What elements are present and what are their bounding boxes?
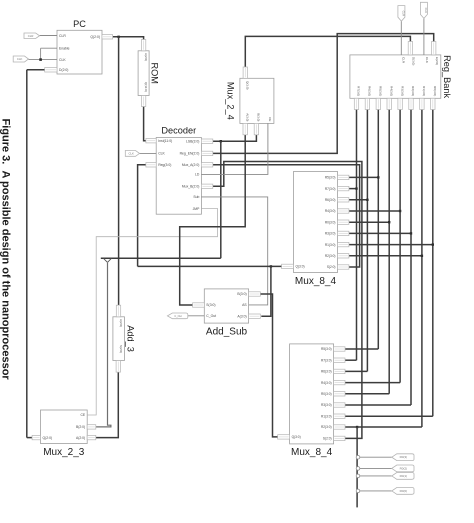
svg-text:Enable: Enable bbox=[59, 47, 70, 51]
svg-text:R3(3:0): R3(3:0) bbox=[400, 86, 404, 96]
svg-text:Mux_8_4: Mux_8_4 bbox=[295, 276, 337, 287]
svg-text:CLK: CLK bbox=[425, 57, 429, 63]
svg-text:CLK: CLK bbox=[128, 151, 134, 155]
svg-text:R2(3:0): R2(3:0) bbox=[321, 425, 332, 429]
svg-text:R6(3:0): R6(3:0) bbox=[321, 370, 332, 374]
svg-text:R4(3:0): R4(3:0) bbox=[325, 209, 336, 213]
svg-text:Mux_B(2:0): Mux_B(2:0) bbox=[182, 185, 200, 189]
svg-text:Q(3:0): Q(3:0) bbox=[296, 265, 305, 269]
svg-text:R7(3:0): R7(3:0) bbox=[357, 86, 361, 96]
svg-text:R2(3:0): R2(3:0) bbox=[325, 254, 336, 258]
svg-text:R1(3:0): R1(3:0) bbox=[325, 243, 336, 247]
svg-text:R5(3:0): R5(3:0) bbox=[321, 347, 332, 351]
svg-text:LSB(3:0): LSB(3:0) bbox=[186, 140, 199, 144]
svg-text:A(3:0): A(3:0) bbox=[237, 314, 246, 318]
svg-text:CLR: CLR bbox=[28, 34, 34, 38]
svg-text:Mux_2_3: Mux_2_3 bbox=[43, 447, 85, 458]
svg-text:B(3:0): B(3:0) bbox=[257, 113, 261, 121]
svg-text:Q(2:0): Q(2:0) bbox=[90, 35, 100, 39]
svg-text:A(2:0): A(2:0) bbox=[144, 53, 148, 61]
svg-text:C_Out: C_Out bbox=[174, 314, 182, 318]
svg-text:R7(3:0): R7(3:0) bbox=[325, 187, 336, 191]
svg-text:A(3:0): A(3:0) bbox=[245, 113, 249, 121]
svg-text:CLK: CLK bbox=[17, 57, 23, 61]
svg-text:ROM: ROM bbox=[150, 62, 160, 83]
svg-text:R0(2): R0(2) bbox=[400, 466, 408, 470]
svg-text:S(2:0): S(2:0) bbox=[327, 265, 336, 269]
svg-text:Figure 3. A possible design o: Figure 3. A possible design of the nanop… bbox=[0, 119, 12, 381]
svg-text:R0(1): R0(1) bbox=[400, 474, 408, 478]
svg-text:Mux_2_4: Mux_2_4 bbox=[226, 82, 236, 120]
svg-text:CE: CE bbox=[80, 413, 85, 417]
svg-text:A(2:0): A(2:0) bbox=[119, 319, 123, 327]
svg-text:CLR: CLR bbox=[401, 11, 405, 17]
svg-text:R0(3:0): R0(3:0) bbox=[325, 220, 336, 224]
svg-text:A(2:0): A(2:0) bbox=[76, 436, 85, 440]
svg-text:D(3:0): D(3:0) bbox=[412, 57, 416, 65]
svg-text:R5(3:0): R5(3:0) bbox=[325, 176, 336, 180]
svg-text:Reg_Bank: Reg_Bank bbox=[442, 55, 452, 98]
svg-text:Add_3: Add_3 bbox=[126, 325, 136, 352]
svg-text:R0(3:0): R0(3:0) bbox=[321, 392, 332, 396]
svg-text:R3(3:0): R3(3:0) bbox=[325, 232, 336, 236]
svg-text:Decoder: Decoder bbox=[161, 126, 196, 136]
svg-text:CE: CE bbox=[268, 117, 272, 121]
svg-text:C_Out: C_Out bbox=[206, 314, 216, 318]
svg-text:R1(3:0): R1(3:0) bbox=[321, 414, 332, 418]
svg-text:R0(0): R0(0) bbox=[400, 489, 408, 493]
svg-text:R5(3:0): R5(3:0) bbox=[379, 86, 383, 96]
svg-text:Mux_A(2:0): Mux_A(2:0) bbox=[182, 163, 200, 167]
svg-text:R7(3:0): R7(3:0) bbox=[321, 358, 332, 362]
svg-text:JMP: JMP bbox=[193, 207, 201, 211]
svg-text:R1(3:0): R1(3:0) bbox=[422, 86, 426, 96]
svg-text:S(2:0): S(2:0) bbox=[119, 345, 123, 353]
svg-text:R6(3:0): R6(3:0) bbox=[368, 86, 372, 96]
svg-text:AS: AS bbox=[242, 303, 247, 307]
svg-text:Reg_EN(2:0): Reg_EN(2:0) bbox=[180, 152, 200, 156]
svg-text:R4(3:0): R4(3:0) bbox=[389, 86, 393, 96]
svg-text:PC: PC bbox=[73, 19, 86, 29]
svg-text:CLK: CLK bbox=[59, 58, 66, 62]
svg-text:R0(3:0): R0(3:0) bbox=[433, 86, 437, 96]
svg-text:S(2:0): S(2:0) bbox=[323, 437, 332, 441]
svg-text:Reg(3:0): Reg(3:0) bbox=[158, 163, 171, 167]
svg-text:CLK: CLK bbox=[158, 152, 165, 156]
svg-text:Inst(11:0): Inst(11:0) bbox=[158, 139, 172, 143]
svg-text:Q(2:0): Q(2:0) bbox=[43, 436, 53, 440]
svg-text:Q(3:0): Q(3:0) bbox=[246, 81, 250, 90]
svg-text:CLR: CLR bbox=[402, 57, 406, 64]
svg-text:R6(3:0): R6(3:0) bbox=[325, 198, 336, 202]
svg-text:R0(3): R0(3) bbox=[400, 455, 408, 459]
svg-text:LD: LD bbox=[195, 173, 200, 177]
svg-text:CLR: CLR bbox=[59, 34, 66, 38]
svg-text:D(2:0): D(2:0) bbox=[59, 68, 68, 72]
svg-text:R3(3:0): R3(3:0) bbox=[321, 403, 332, 407]
svg-text:Mux_8_4: Mux_8_4 bbox=[291, 447, 333, 458]
svg-text:Q(3:0): Q(3:0) bbox=[292, 435, 301, 439]
svg-text:B(2:0): B(2:0) bbox=[76, 425, 85, 429]
svg-text:R2(3:0): R2(3:0) bbox=[411, 86, 415, 96]
svg-text:E(2:0): E(2:0) bbox=[435, 57, 439, 65]
svg-text:Sub: Sub bbox=[193, 195, 199, 199]
svg-text:R4(3:0): R4(3:0) bbox=[321, 381, 332, 385]
svg-text:B(3:0): B(3:0) bbox=[237, 292, 246, 296]
svg-text:Add_Sub: Add_Sub bbox=[206, 327, 248, 338]
svg-text:S(3:0): S(3:0) bbox=[206, 303, 215, 307]
svg-text:Q(11:0): Q(11:0) bbox=[144, 82, 148, 92]
svg-text:CLK: CLK bbox=[424, 8, 428, 14]
